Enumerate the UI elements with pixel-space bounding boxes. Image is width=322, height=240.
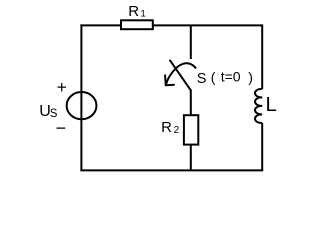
wire R2 to bottom (190, 145, 192, 170)
switch S blade (170, 60, 191, 91)
label S (t=0) (197, 69, 253, 87)
svg-text:): ) (248, 69, 253, 85)
wire bottom segment (80, 169, 263, 171)
switch arrowhead (165, 75, 175, 86)
svg-text:1: 1 (141, 9, 146, 20)
wire top-right segment (153, 25, 262, 89)
resistor R1 (121, 20, 153, 29)
label R1 (128, 3, 146, 20)
inductor L coil (255, 89, 262, 123)
label R2 (161, 119, 180, 136)
wire switch top contact (190, 25, 192, 59)
svg-text:2: 2 (174, 125, 180, 136)
wire left segment (80, 24, 82, 171)
wire top-left segment (81, 24, 121, 27)
wire right-bottom segment (261, 123, 263, 170)
label US (39, 103, 58, 120)
svg-text:+: + (57, 77, 67, 97)
wire switch to R2 (190, 90, 192, 116)
voltage source US circle (67, 92, 97, 119)
svg-text:R: R (161, 119, 172, 136)
svg-text:(: ( (211, 69, 216, 85)
resistor R2 (184, 115, 198, 144)
svg-text:R: R (128, 3, 139, 20)
svg-text:t=0: t=0 (221, 69, 241, 85)
svg-text:−: − (56, 118, 67, 138)
svg-text:S: S (197, 71, 207, 87)
svg-text:L: L (266, 93, 277, 116)
switch arrow arc (166, 63, 196, 84)
